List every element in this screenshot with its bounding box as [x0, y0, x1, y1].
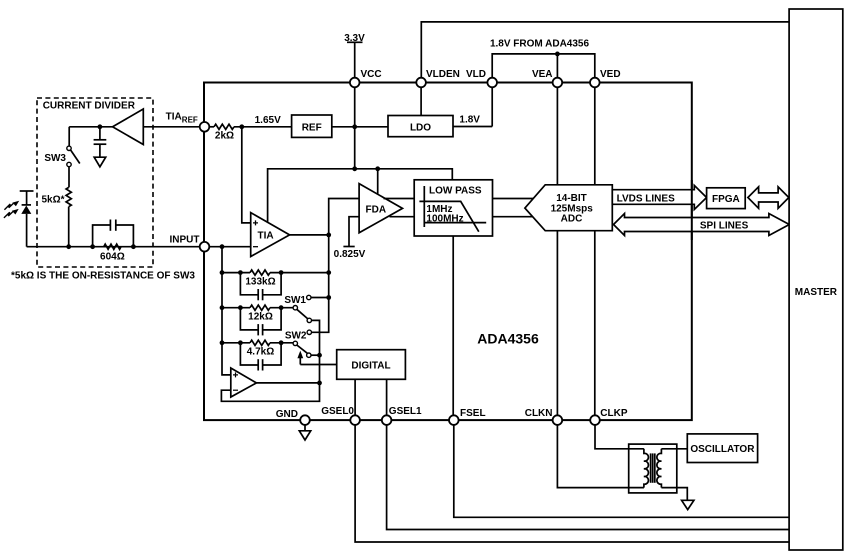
svg-text:0.825V: 0.825V	[334, 249, 366, 260]
block LOW PASS filter	[414, 180, 492, 236]
svg-text:MASTER: MASTER	[795, 287, 838, 298]
wire DIGITAL to GSEL0	[354, 379, 356, 415]
op-amp integrator	[231, 368, 257, 397]
wire 3.3V to VCC pin	[354, 42, 356, 78]
wire integrator output	[256, 382, 319, 384]
svg-text:FDA: FDA	[366, 205, 387, 216]
svg-text:INPUT: INPUT	[170, 235, 200, 246]
pin CLKN	[525, 408, 562, 425]
pin GND	[276, 409, 310, 425]
svg-text:133kΩ: 133kΩ	[245, 276, 275, 287]
wire buffer input from TIAREF	[143, 126, 199, 128]
wire TIA output up to FDA upper input	[329, 199, 359, 235]
wire REF to LDO	[332, 126, 388, 128]
svg-text:CLKP: CLKP	[600, 408, 628, 419]
block REF	[292, 115, 332, 137]
LVDS LINES arrow to FPGA	[612, 185, 706, 209]
resistor 604	[100, 244, 125, 262]
pin VEA	[532, 69, 562, 87]
svg-text:*5kΩ IS THE ON-RESISTANCE OF S: *5kΩ IS THE ON-RESISTANCE OF SW3	[11, 270, 195, 281]
capacitor parallel with 133k	[240, 273, 281, 295]
svg-text:LDO: LDO	[410, 122, 431, 133]
op-amp TIA	[251, 213, 290, 257]
pin FSEL	[449, 408, 486, 425]
svg-text:LVDS LINES: LVDS LINES	[617, 194, 675, 205]
wire rail to FDA top	[377, 169, 379, 195]
svg-text:SW3: SW3	[44, 153, 66, 164]
svg-text:GSEL1: GSEL1	[389, 406, 422, 417]
wire GSEL0 to MASTER	[355, 425, 789, 542]
block ADC 14-BIT 125Msps	[525, 185, 612, 231]
resistor 2k from TIAREF	[209, 124, 291, 141]
wire VED down to ADC and CLKP	[594, 87, 596, 415]
wire photodiode bottom to INPUT	[27, 246, 200, 248]
wire INPUT to TIA - input	[209, 246, 250, 248]
switch SW3	[44, 127, 79, 167]
block LDO	[388, 116, 453, 137]
svg-text:2kΩ: 2kΩ	[215, 131, 234, 142]
svg-text:GND: GND	[276, 409, 298, 420]
resistor 4.7k feedback row	[220, 340, 294, 370]
svg-text:VCC: VCC	[361, 69, 382, 80]
svg-text:REF: REF	[302, 123, 322, 134]
svg-text:REF: REF	[182, 116, 198, 125]
svg-text:TIA: TIA	[258, 230, 274, 241]
svg-text:OSCILLATOR: OSCILLATOR	[690, 444, 755, 455]
junction VCC x REF line	[352, 124, 357, 129]
block DIGITAL	[337, 350, 406, 380]
svg-text:SPI LINES: SPI LINES	[700, 220, 749, 231]
capacitor parallel with 604	[93, 220, 134, 247]
wire TIA output rail down to SW2 throw	[312, 235, 329, 332]
wire CLKP to transformer primary top	[595, 425, 644, 449]
wire VEA down to ADC and CLKN	[556, 87, 558, 415]
node 1.8V FROM ADA4356 rail	[490, 39, 595, 79]
control arrow from DIGITAL to switches	[297, 351, 336, 365]
wire GSEL1 to MASTER	[387, 425, 789, 530]
wire DIGITAL to GSEL1	[386, 379, 388, 415]
wire LOW PASS to FSEL	[452, 236, 454, 415]
resistor 133k feedback row	[220, 270, 332, 300]
transformer T1	[629, 444, 677, 493]
wire LOW PASS outputs to ADC	[493, 198, 535, 200]
wire VCC vertical down to mid rail	[354, 87, 356, 169]
svg-text:604Ω: 604Ω	[100, 251, 125, 262]
svg-text:1.65V: 1.65V	[255, 115, 281, 126]
pin VCC	[350, 69, 382, 87]
svg-text:VLD: VLD	[466, 69, 486, 80]
svg-text:FSEL: FSEL	[460, 408, 486, 419]
junction 2k to TIA+	[239, 124, 244, 129]
svg-text:CLKN: CLKN	[525, 408, 553, 419]
SPI LINES bidirectional arrow	[614, 214, 790, 236]
ground symbol below transformer	[682, 500, 694, 509]
pin VLD	[466, 69, 497, 87]
wire FDA lower input and 0.825V stub	[334, 217, 366, 260]
photodiode D1	[20, 191, 34, 247]
wire transformer secondary top to OSCILLATOR	[661, 448, 687, 450]
capacitor parallel with 4.7k	[240, 343, 281, 365]
switch SW2	[285, 330, 322, 358]
svg-text:VED: VED	[600, 69, 621, 80]
pin TIAREF	[166, 112, 210, 132]
svg-text:12kΩ: 12kΩ	[248, 311, 273, 322]
pin CLKP	[590, 408, 628, 425]
bidirectional arrow FPGA to MASTER	[748, 187, 789, 209]
svg-text:ADA4356: ADA4356	[477, 331, 539, 347]
wire left feedback rail to integrator +	[222, 247, 231, 375]
pin VLDEN	[416, 69, 460, 87]
pin GSEL0	[321, 406, 360, 425]
svg-text:CURRENT DIVIDER: CURRENT DIVIDER	[43, 100, 136, 111]
svg-text:VLDEN: VLDEN	[426, 69, 460, 80]
wire 2k junction down to TIA + input	[242, 127, 251, 223]
photodiode light arrows	[4, 201, 19, 218]
svg-text:ADC: ADC	[561, 214, 583, 225]
current divider dashed box	[37, 98, 153, 267]
wire buffer output	[69, 126, 112, 128]
wire CLKN to transformer primary bottom	[557, 425, 644, 488]
ADA4356 main block outline	[204, 83, 692, 421]
svg-text:SW1: SW1	[284, 295, 306, 306]
wire FSEL to MASTER	[454, 425, 789, 517]
buffer amplifier triangle	[113, 109, 144, 145]
wire VLDEN to LDO top	[420, 87, 422, 115]
wire main block right edge over arrows	[691, 180, 693, 240]
wire TIA output	[290, 234, 329, 236]
wire FDA outputs to LOW PASS	[384, 198, 415, 200]
svg-text:5kΩ*: 5kΩ*	[41, 195, 64, 206]
op-amp FDA	[359, 184, 402, 233]
block MASTER	[789, 9, 843, 550]
wire LDO 1.8V output to VLD	[453, 87, 492, 126]
pin INPUT	[170, 235, 210, 252]
block FPGA	[707, 188, 746, 209]
capacitor to ground at buffer output	[94, 127, 107, 167]
supply 3.3V label	[344, 33, 365, 44]
svg-text:TIA: TIA	[166, 112, 182, 123]
block OSCILLATOR	[687, 434, 757, 463]
svg-text:SW2: SW2	[285, 331, 307, 342]
svg-text:DIGITAL: DIGITAL	[351, 360, 390, 371]
ground symbol below GND	[299, 425, 310, 440]
svg-text:100MHz: 100MHz	[426, 214, 463, 225]
pin GSEL1	[382, 406, 422, 425]
pin VED	[590, 69, 621, 87]
svg-text:1.8V FROM ADA4356: 1.8V FROM ADA4356	[490, 39, 590, 50]
svg-text:LOW PASS: LOW PASS	[429, 186, 482, 197]
resistor 5k on-resistance	[41, 167, 71, 247]
svg-text:4.7kΩ: 4.7kΩ	[247, 347, 274, 358]
capacitor parallel with 12k	[240, 308, 281, 330]
wire top rail VLDEN to MASTER	[421, 22, 789, 78]
resistor 12k feedback row	[220, 305, 294, 335]
wire switch pole to integrator feedback loop	[221, 355, 319, 401]
wire mid rail over TIA/FDA to LOW PASS	[268, 169, 453, 222]
svg-text:VEA: VEA	[532, 69, 553, 80]
switch SW1	[284, 295, 328, 355]
svg-text:GSEL0: GSEL0	[321, 406, 354, 417]
svg-text:1.8V: 1.8V	[459, 115, 480, 126]
svg-text:FPGA: FPGA	[712, 194, 740, 205]
wire transformer secondary bottom to ground	[661, 488, 687, 501]
